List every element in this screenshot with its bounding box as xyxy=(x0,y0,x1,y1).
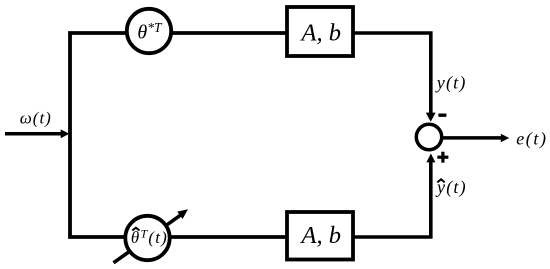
svg-text:e(t): e(t) xyxy=(516,128,547,149)
minus sign xyxy=(438,113,446,116)
block A,b top xyxy=(287,7,353,56)
wire arrow through adjustable gain xyxy=(114,209,189,262)
svg-text:θT(t): θT(t) xyxy=(131,227,168,248)
wire left rail with top and bottom branches xyxy=(70,33,287,237)
wire output e(t) xyxy=(443,134,509,143)
svg-text:y(t): y(t) xyxy=(435,72,467,93)
wire input omega(t) xyxy=(5,129,69,138)
svg-text:A, b: A, b xyxy=(300,20,341,47)
summing junction xyxy=(416,124,441,149)
plus sign xyxy=(437,152,448,163)
svg-text:ω(t): ω(t) xyxy=(20,108,52,127)
svg-text:A, b: A, b xyxy=(300,222,341,249)
wire top box to summing junction xyxy=(353,33,436,122)
node y_hat(t) label xyxy=(435,177,467,198)
gain block theta*T xyxy=(127,9,171,53)
block A,b bottom xyxy=(287,212,353,260)
gain block theta_hat^T(t) xyxy=(125,216,169,260)
wire bottom box to summing junction xyxy=(353,154,435,238)
